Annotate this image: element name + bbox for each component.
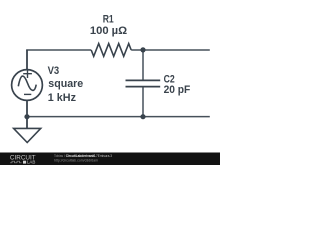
svg-text:R1: R1 [103, 14, 114, 26]
wire [142, 50, 144, 80]
svg-text:20 pF: 20 pF [164, 84, 191, 96]
node junction dot [140, 47, 145, 52]
wire [142, 87, 144, 117]
watermark CircuitLab logo [10, 153, 113, 164]
svg-text:1 kHz: 1 kHz [48, 92, 76, 104]
wire [131, 49, 210, 51]
node junction dot [24, 114, 29, 119]
voltage source V3 lead top [26, 50, 28, 70]
svg-text:http://circuitlab.com/c8dr6am: http://circuitlab.com/c8dr6am [54, 157, 99, 162]
wire [26, 49, 91, 51]
ground [14, 128, 41, 142]
svg-text:square: square [48, 78, 83, 90]
svg-text:100 µΩ: 100 µΩ [90, 25, 128, 37]
svg-text:V3: V3 [48, 65, 60, 77]
node junction dot [140, 114, 145, 119]
voltage source V3 [12, 70, 43, 101]
svg-text:LAB: LAB [27, 160, 36, 165]
wire [26, 116, 210, 118]
resistor R1 [91, 44, 131, 57]
voltage source V3 lead bottom [26, 100, 28, 117]
ground lead [26, 117, 28, 129]
capacitor C2 plates [126, 80, 161, 86]
watermark bar [0, 153, 220, 166]
